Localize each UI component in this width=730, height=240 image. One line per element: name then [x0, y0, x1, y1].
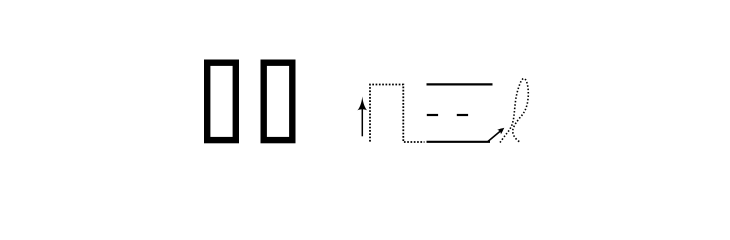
dotted pulse path — [370, 85, 425, 143]
tofu box 2 — [264, 63, 293, 140]
bottom solid line — [427, 141, 491, 143]
velocity arrow (up) — [357, 97, 367, 137]
top solid line — [427, 83, 493, 85]
label: script ell (dotted) — [500, 79, 528, 143]
tofu box 1 — [207, 63, 236, 140]
pointer arrow (diagonal, to label) — [487, 126, 506, 142]
dashed centerline (two dashes) — [427, 114, 468, 116]
